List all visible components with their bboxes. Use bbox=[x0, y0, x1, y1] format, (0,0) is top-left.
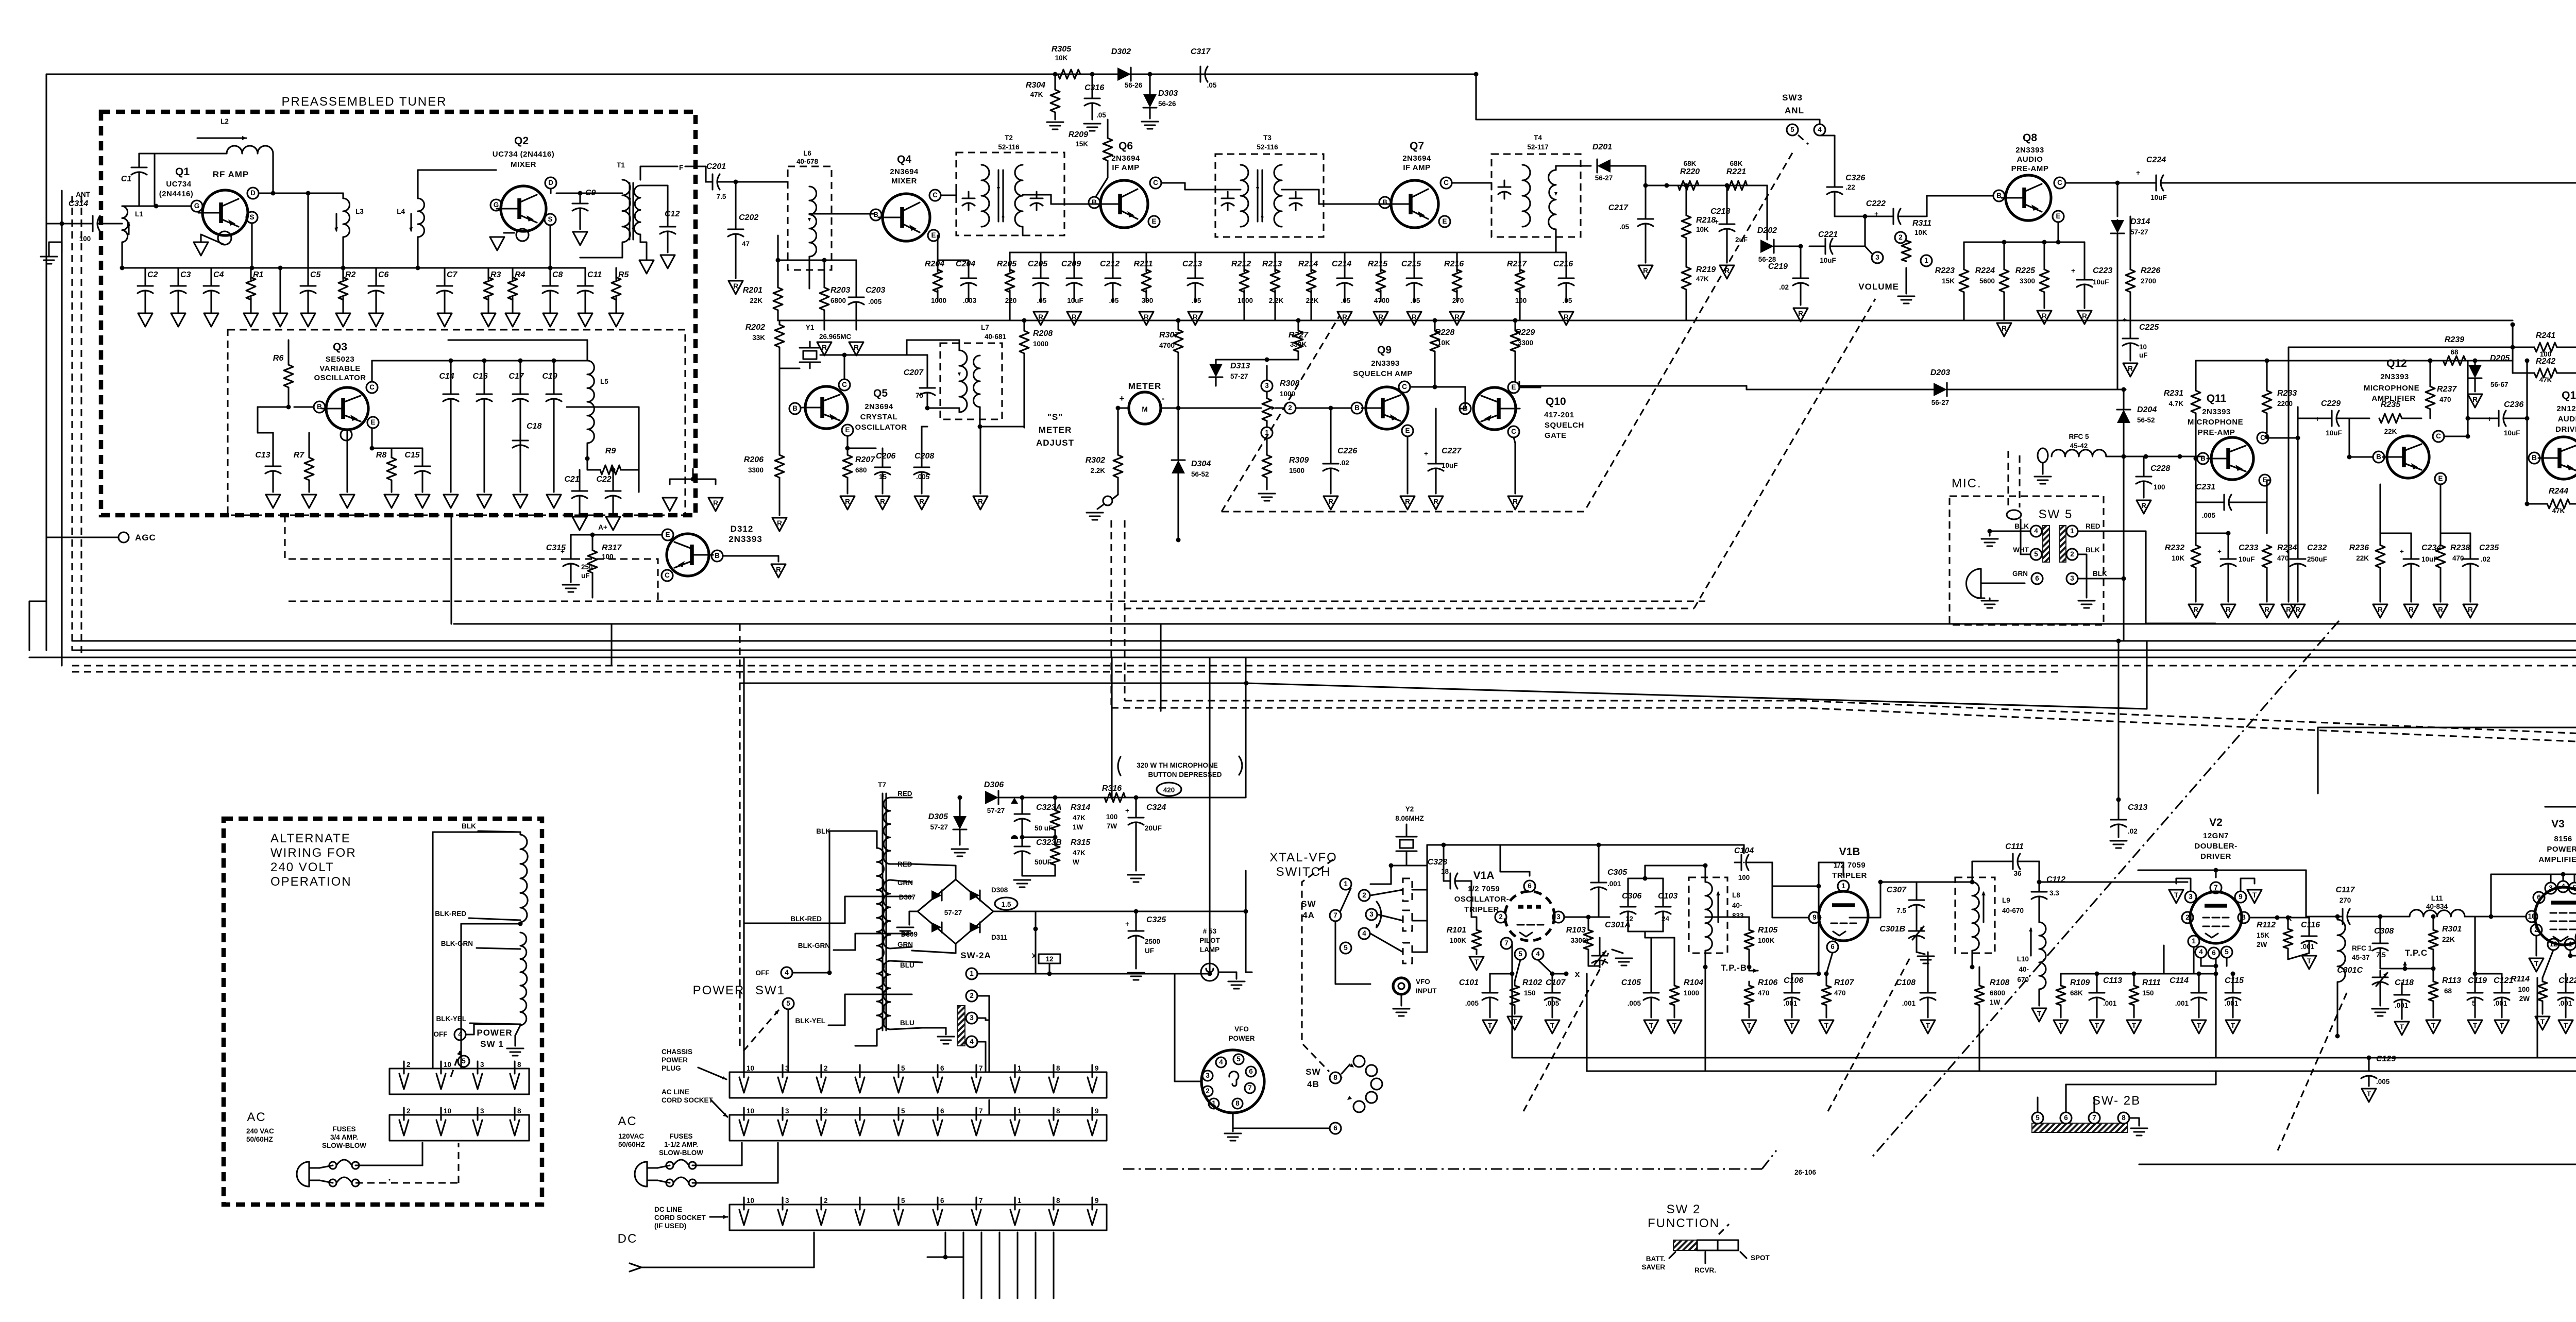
wire bbox=[1296, 407, 1351, 409]
ground bbox=[2189, 604, 2203, 618]
wire bbox=[1519, 252, 1520, 272]
svg-text:26-106: 26-106 bbox=[1794, 1168, 1817, 1176]
svg-text:R: R bbox=[845, 498, 850, 505]
svg-text:OSCILLATOR: OSCILLATOR bbox=[314, 374, 366, 382]
svg-text:R218: R218 bbox=[1696, 216, 1716, 225]
capacitor C231 bbox=[2196, 459, 2270, 533]
svg-text:SW-2A: SW-2A bbox=[960, 951, 991, 960]
resistor R2 bbox=[338, 270, 356, 300]
wire bbox=[912, 944, 956, 953]
svg-text:2: 2 bbox=[1499, 913, 1503, 921]
svg-text:C: C bbox=[842, 381, 847, 388]
wire bbox=[2117, 320, 2124, 389]
resistor R111 bbox=[2129, 972, 2161, 1018]
capacitor C17 bbox=[509, 359, 528, 493]
wire bbox=[433, 832, 520, 1069]
svg-text:100: 100 bbox=[2518, 986, 2530, 993]
ground bbox=[2131, 1128, 2147, 1135]
svg-text:7: 7 bbox=[979, 1064, 983, 1072]
resistor R101 bbox=[1447, 917, 1481, 954]
resistor R112 bbox=[2257, 916, 2293, 960]
svg-text:B: B bbox=[317, 403, 322, 411]
transistor Q12 bbox=[2373, 431, 2446, 484]
svg-text:R: R bbox=[2128, 365, 2133, 372]
svg-text:T4: T4 bbox=[1534, 134, 1542, 142]
wire bbox=[45, 74, 47, 650]
svg-text:R201: R201 bbox=[743, 286, 762, 295]
wire bbox=[454, 624, 2576, 650]
ground bbox=[1559, 312, 1573, 325]
svg-text:1500: 1500 bbox=[1289, 467, 1304, 474]
wire bbox=[1233, 1113, 1288, 1128]
microphone box bbox=[1950, 496, 2104, 625]
svg-text:1-1/2 AMP.: 1-1/2 AMP. bbox=[664, 1141, 698, 1148]
svg-text:SW- 2B: SW- 2B bbox=[2092, 1094, 2141, 1108]
wire bbox=[809, 213, 873, 214]
alternate wiring box bbox=[224, 819, 542, 1205]
svg-text:6: 6 bbox=[940, 1064, 944, 1072]
wire bbox=[1514, 437, 1515, 494]
wire bbox=[1209, 657, 1210, 974]
svg-text:C108: C108 bbox=[1896, 978, 1916, 987]
svg-text:.02: .02 bbox=[2481, 555, 2490, 563]
svg-text:C236: C236 bbox=[2504, 400, 2523, 409]
label BLU2 bbox=[890, 1019, 922, 1029]
svg-text:1000: 1000 bbox=[1684, 989, 1699, 997]
wire bbox=[71, 196, 73, 650]
wire bbox=[1519, 382, 1540, 387]
resistor R9 bbox=[587, 447, 639, 492]
svg-text:R: R bbox=[733, 282, 738, 290]
svg-text:CORD SOCKET: CORD SOCKET bbox=[662, 1096, 714, 1104]
svg-text:7: 7 bbox=[1333, 911, 1337, 919]
svg-text:8: 8 bbox=[1235, 1099, 1240, 1107]
capacitor C212 bbox=[1100, 260, 1121, 304]
wire bbox=[927, 1232, 963, 1260]
wire bbox=[1500, 843, 1744, 848]
svg-text:T: T bbox=[2252, 891, 2257, 899]
svg-text:10K: 10K bbox=[2172, 554, 2184, 562]
resistor R314 bbox=[1022, 795, 1090, 840]
label V1A bbox=[1454, 870, 1510, 914]
VFO power socket bbox=[1201, 1025, 1264, 1113]
wire bbox=[1745, 386, 1747, 389]
wire bbox=[139, 267, 585, 268]
resistor R106 bbox=[1744, 978, 1777, 1018]
svg-text:C101: C101 bbox=[1459, 978, 1479, 987]
svg-text:R: R bbox=[1072, 313, 1077, 321]
svg-text:BLK: BLK bbox=[2086, 546, 2100, 554]
resistor R214 bbox=[1298, 260, 1319, 304]
svg-text:C103: C103 bbox=[1658, 892, 1677, 901]
wire bbox=[1194, 252, 1196, 272]
switch SW4A bbox=[1301, 878, 1381, 954]
svg-text:10K: 10K bbox=[1055, 54, 1068, 62]
svg-text:CHASSIS: CHASSIS bbox=[662, 1048, 692, 1056]
svg-text:4: 4 bbox=[1818, 126, 1822, 133]
svg-text:C209: C209 bbox=[1061, 260, 1081, 268]
svg-text:R: R bbox=[1798, 310, 1803, 317]
svg-text:R: R bbox=[880, 498, 885, 505]
ground bbox=[477, 495, 492, 508]
svg-text:6: 6 bbox=[2064, 1114, 2068, 1122]
wire bbox=[1185, 190, 1386, 204]
ground bbox=[897, 911, 918, 935]
svg-text:10: 10 bbox=[444, 1061, 451, 1069]
label TPC bbox=[2380, 948, 2428, 971]
svg-text:22K: 22K bbox=[1306, 297, 1319, 304]
wire bbox=[592, 523, 662, 535]
svg-text:E: E bbox=[1405, 427, 1410, 434]
switch SW2 FUNCTION bbox=[1641, 1202, 1770, 1274]
resistor R233 bbox=[2262, 359, 2297, 439]
resistor R116 bbox=[2318, 698, 2576, 793]
svg-text:3/4 AMP.: 3/4 AMP. bbox=[330, 1133, 358, 1141]
svg-text:3: 3 bbox=[2549, 884, 2553, 892]
svg-text:Q1: Q1 bbox=[175, 166, 190, 178]
svg-text:R102: R102 bbox=[1522, 978, 1542, 987]
wire bbox=[2134, 974, 2216, 1058]
svg-text:SW 1: SW 1 bbox=[480, 1039, 504, 1049]
capacitor C121 bbox=[2473, 972, 2514, 1018]
label 420 bbox=[1157, 783, 1181, 796]
svg-text:"S": "S" bbox=[1047, 412, 1063, 422]
svg-text:R224: R224 bbox=[1975, 266, 1995, 275]
svg-text:50/60HZ: 50/60HZ bbox=[246, 1135, 273, 1143]
svg-text:C2: C2 bbox=[147, 270, 158, 279]
ground bbox=[563, 585, 579, 592]
svg-text:B: B bbox=[715, 552, 720, 560]
ground bbox=[840, 496, 855, 510]
svg-text:57-27: 57-27 bbox=[944, 909, 962, 917]
svg-text:3: 3 bbox=[970, 1014, 974, 1022]
resistor R236 bbox=[2349, 484, 2385, 602]
wire bbox=[1556, 166, 1591, 252]
label DC bbox=[618, 1232, 638, 1246]
svg-text:C229: C229 bbox=[2321, 399, 2341, 408]
ground bbox=[1324, 496, 1338, 510]
svg-text:R101: R101 bbox=[1447, 926, 1466, 935]
wire bbox=[2466, 323, 2515, 361]
svg-text:40-670: 40-670 bbox=[2002, 907, 2024, 914]
svg-text:50UF: 50UF bbox=[1035, 858, 1052, 866]
capacitor C236 bbox=[2466, 400, 2530, 437]
svg-text:47K: 47K bbox=[1073, 849, 1086, 857]
wire bbox=[2066, 1071, 2216, 1097]
svg-text:T: T bbox=[2400, 1023, 2404, 1031]
svg-text:R111: R111 bbox=[2142, 978, 2161, 987]
ground bbox=[973, 427, 988, 510]
svg-text:+: + bbox=[1424, 450, 1428, 457]
svg-text:C223: C223 bbox=[2093, 266, 2112, 275]
capacitor C307 bbox=[1887, 882, 1924, 924]
wire bbox=[1565, 252, 1567, 272]
svg-text:4700: 4700 bbox=[1374, 297, 1389, 304]
capacitor C21 bbox=[564, 470, 587, 514]
wire bbox=[1586, 915, 1610, 920]
svg-text:C: C bbox=[1444, 179, 1449, 187]
wire bbox=[1136, 657, 1246, 798]
ground bbox=[2281, 604, 2296, 618]
DC arrow bbox=[630, 1232, 814, 1272]
svg-text:D204: D204 bbox=[2137, 405, 2157, 414]
svg-text:Q12: Q12 bbox=[2386, 358, 2407, 369]
wire bbox=[463, 1067, 464, 1069]
svg-text:C113: C113 bbox=[2103, 976, 2122, 985]
switch SW4B bbox=[1306, 1056, 1382, 1112]
ground bbox=[1407, 312, 1421, 325]
wire bbox=[1310, 252, 1312, 272]
svg-text:R: R bbox=[822, 344, 827, 351]
svg-text:1: 1 bbox=[970, 970, 974, 977]
crystal Y2 bbox=[1395, 805, 1424, 866]
svg-text:VARIABLE: VARIABLE bbox=[319, 364, 361, 373]
wire bbox=[1112, 252, 1113, 272]
wire bbox=[1035, 1232, 1036, 1298]
svg-text:BLK: BLK bbox=[816, 827, 831, 835]
svg-text:670: 670 bbox=[2017, 976, 2029, 984]
svg-text:Y1: Y1 bbox=[806, 324, 815, 331]
svg-text:BUTTON DEPRESSED: BUTTON DEPRESSED bbox=[1148, 771, 1222, 778]
wire bbox=[1646, 184, 1767, 186]
inductor L5 bbox=[562, 361, 608, 459]
ground bbox=[1259, 494, 1275, 501]
diode D303 bbox=[1143, 72, 1178, 119]
svg-text:3: 3 bbox=[2189, 893, 2193, 901]
svg-text:7: 7 bbox=[979, 1197, 983, 1205]
svg-text:R: R bbox=[2002, 325, 2007, 332]
ground bbox=[1508, 496, 1522, 510]
wire bbox=[1124, 607, 1694, 609]
svg-text:68K: 68K bbox=[1730, 160, 1743, 167]
resistor R229 bbox=[1511, 318, 1535, 382]
ground bbox=[1337, 312, 1352, 325]
ground bbox=[204, 298, 218, 327]
label DC line cord socket bbox=[654, 1206, 727, 1230]
capacitor C221 bbox=[1809, 230, 1865, 264]
svg-text:OFF: OFF bbox=[434, 1030, 448, 1038]
svg-text:E: E bbox=[1151, 217, 1156, 225]
svg-text:D: D bbox=[250, 189, 256, 197]
svg-text:R109: R109 bbox=[2070, 978, 2090, 987]
diode D202 bbox=[1757, 185, 1801, 263]
resistor R202 bbox=[745, 320, 784, 355]
svg-text:8.06MHZ: 8.06MHZ bbox=[1395, 815, 1424, 822]
svg-text:T: T bbox=[2059, 1022, 2063, 1029]
svg-text:45-42: 45-42 bbox=[2070, 442, 2088, 450]
wire bbox=[450, 515, 452, 624]
svg-text:Q6: Q6 bbox=[1118, 140, 1133, 152]
label MIC bbox=[1952, 477, 1982, 490]
svg-text:T: T bbox=[2037, 1010, 2042, 1018]
svg-text:1000: 1000 bbox=[931, 297, 946, 304]
svg-text:R108: R108 bbox=[1990, 978, 2009, 987]
svg-text:10uF: 10uF bbox=[1820, 257, 1836, 264]
svg-text:8156: 8156 bbox=[2554, 835, 2572, 843]
ground bbox=[1917, 952, 1934, 963]
svg-text:B: B bbox=[1463, 404, 1468, 412]
wire bbox=[289, 600, 1705, 602]
label chassis power plug bbox=[662, 1048, 726, 1079]
ground bbox=[1188, 312, 1202, 325]
diode D314 bbox=[2111, 217, 2150, 320]
svg-text:C325: C325 bbox=[1146, 916, 1166, 924]
svg-text:T: T bbox=[1926, 1022, 1930, 1029]
wire bbox=[1246, 971, 1252, 973]
svg-text:-: - bbox=[1162, 394, 1165, 403]
svg-text:7.5: 7.5 bbox=[2376, 951, 2386, 959]
capacitor C232 bbox=[2285, 438, 2327, 602]
label RED bbox=[890, 790, 912, 798]
svg-text:5: 5 bbox=[901, 1197, 905, 1205]
capacitor C106 bbox=[1784, 974, 1803, 1018]
transformer T7 bbox=[877, 781, 890, 1030]
svg-text:POWER: POWER bbox=[1228, 1035, 1255, 1042]
label S METER ADJUST bbox=[1036, 412, 1074, 448]
svg-text:L6: L6 bbox=[803, 149, 811, 157]
resistor R220 bbox=[1665, 160, 1700, 190]
svg-text:L8: L8 bbox=[1732, 891, 1740, 899]
ground bbox=[1819, 1020, 1834, 1033]
svg-text:470: 470 bbox=[2439, 396, 2451, 403]
wire bbox=[1341, 1077, 1342, 1078]
resistor R242 bbox=[2513, 325, 2576, 384]
ground bbox=[1667, 1020, 1682, 1033]
svg-text:R314: R314 bbox=[1071, 803, 1090, 812]
svg-text:10uF: 10uF bbox=[2150, 194, 2167, 201]
capacitor C113 bbox=[2061, 972, 2122, 1018]
svg-text:3: 3 bbox=[1556, 913, 1561, 921]
svg-text:D305: D305 bbox=[928, 812, 948, 821]
svg-text:R: R bbox=[1378, 313, 1383, 321]
svg-text:R: R bbox=[2378, 606, 2383, 614]
svg-text:R239: R239 bbox=[2445, 335, 2464, 344]
svg-text:C: C bbox=[1402, 383, 1407, 391]
svg-text:10uF: 10uF bbox=[2093, 278, 2109, 286]
wire bbox=[61, 224, 62, 666]
wire bbox=[988, 1100, 990, 1115]
svg-text:R: R bbox=[2082, 312, 2087, 320]
svg-text:2: 2 bbox=[2185, 913, 2190, 921]
svg-text:3.3: 3.3 bbox=[2049, 889, 2059, 897]
svg-text:T: T bbox=[2174, 891, 2179, 899]
capacitor C115 bbox=[2225, 972, 2244, 1018]
capacitor C328 bbox=[1428, 845, 1471, 917]
svg-text:OPERATION: OPERATION bbox=[270, 875, 352, 889]
capacitor C315 bbox=[546, 533, 595, 583]
wire bbox=[2402, 417, 2421, 419]
transistor Q8 bbox=[1993, 175, 2065, 222]
svg-text:C317: C317 bbox=[1191, 47, 1211, 56]
wire bbox=[657, 1143, 742, 1168]
ground bbox=[2433, 604, 2448, 618]
capacitor C213 bbox=[1182, 260, 1203, 304]
wire bbox=[938, 235, 969, 272]
inductor L8 bbox=[1689, 877, 1744, 953]
wire bbox=[591, 582, 593, 598]
wire bbox=[2057, 222, 2059, 242]
svg-text:R1: R1 bbox=[253, 270, 264, 279]
svg-text:10uF: 10uF bbox=[1442, 462, 1458, 469]
svg-text:1W: 1W bbox=[1990, 998, 2001, 1006]
label Q8 bbox=[2011, 132, 2049, 173]
crystal sockets bbox=[1403, 878, 1412, 963]
capacitor C313 bbox=[2111, 798, 2147, 838]
svg-text:T: T bbox=[2534, 960, 2539, 968]
resistor R304 bbox=[1026, 72, 1060, 120]
svg-text:8: 8 bbox=[1056, 1064, 1060, 1072]
inductor L6 bbox=[788, 149, 832, 270]
svg-text:VFO: VFO bbox=[1416, 978, 1430, 986]
svg-text:.05: .05 bbox=[1207, 81, 1217, 89]
svg-text:.005: .005 bbox=[1628, 999, 1641, 1007]
ground bbox=[340, 464, 354, 508]
label microphone note bbox=[1118, 756, 1242, 778]
svg-text:T2: T2 bbox=[1005, 134, 1013, 142]
svg-text:3: 3 bbox=[1875, 253, 1879, 261]
svg-text:C19: C19 bbox=[542, 372, 557, 381]
svg-text:UF: UF bbox=[1145, 947, 1154, 955]
svg-text:7W: 7W bbox=[1107, 822, 1117, 830]
capacitor C207 bbox=[904, 368, 935, 411]
svg-text:C8: C8 bbox=[552, 270, 563, 279]
svg-text:C206: C206 bbox=[876, 452, 895, 461]
resistor R234 bbox=[2262, 544, 2297, 602]
inductor L3 bbox=[334, 198, 364, 237]
svg-text:R: R bbox=[1454, 313, 1460, 321]
wire bbox=[585, 456, 590, 470]
capacitor C19 bbox=[542, 359, 562, 493]
label 15 oval bbox=[995, 897, 1018, 910]
svg-text:R233: R233 bbox=[2277, 389, 2297, 398]
svg-text:RCVR.: RCVR. bbox=[1694, 1266, 1716, 1274]
svg-text:8: 8 bbox=[2242, 913, 2246, 921]
svg-text:2: 2 bbox=[2534, 926, 2538, 934]
wire bbox=[640, 164, 706, 180]
svg-text:E: E bbox=[845, 426, 850, 434]
diode D313 bbox=[1209, 360, 1267, 386]
svg-text:T: T bbox=[2540, 1018, 2545, 1026]
svg-text:+: + bbox=[2071, 267, 2075, 275]
svg-text:.02: .02 bbox=[1779, 283, 1789, 291]
wire bbox=[2349, 360, 2468, 361]
wire bbox=[1053, 1232, 1054, 1298]
wire bbox=[487, 268, 489, 279]
resistor R4 bbox=[508, 270, 526, 300]
wire bbox=[2078, 554, 2087, 598]
svg-text:.001: .001 bbox=[2494, 999, 2507, 1007]
capacitor C301A trimmer bbox=[1588, 921, 1631, 968]
wire bbox=[2116, 639, 2121, 800]
svg-text:C6: C6 bbox=[378, 270, 389, 279]
switch SW3 bbox=[1782, 93, 1825, 135]
svg-text:T: T bbox=[2564, 1022, 2568, 1029]
svg-text:470: 470 bbox=[2452, 554, 2464, 562]
svg-text:6800: 6800 bbox=[1990, 989, 2005, 997]
diode D204 bbox=[2117, 387, 2157, 457]
ground bbox=[1898, 296, 1914, 303]
wire bbox=[29, 601, 46, 650]
wire bbox=[2038, 1097, 2139, 1126]
label Q12 bbox=[2364, 358, 2419, 403]
wire bbox=[416, 170, 497, 270]
capacitor C204 bbox=[956, 260, 977, 304]
wire bbox=[993, 911, 1038, 931]
label BLK-RED bbox=[790, 896, 912, 923]
svg-text:R5: R5 bbox=[618, 270, 630, 279]
capacitor C305 bbox=[1591, 845, 1628, 917]
ground bbox=[2291, 604, 2305, 618]
